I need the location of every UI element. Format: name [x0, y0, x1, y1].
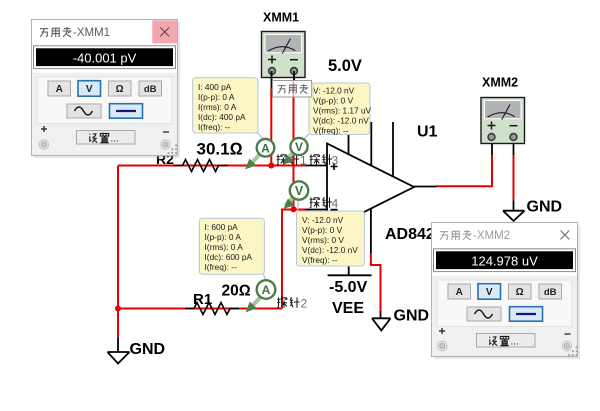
svg-text:dB: dB: [144, 84, 157, 95]
XMM2 button ohm: [509, 284, 532, 299]
XMM1 settings button: [77, 131, 136, 145]
resistor R1: [185, 303, 239, 315]
probe 4 label: [310, 197, 332, 207]
XMM1 instrument icon: [262, 32, 306, 78]
svg-text:V: -12.0 nV: V: -12.0 nV: [313, 85, 355, 95]
ground GND1 bottom left: [108, 338, 130, 364]
XMM2 settings button: [477, 334, 536, 348]
svg-text:I(p-p): 0 A: I(p-p): 0 A: [198, 92, 235, 102]
svg-text:-XMM1: -XMM1: [73, 27, 110, 39]
XMM2 button dB: [539, 284, 562, 299]
op-amp top pin VCC: [348, 130, 350, 155]
probe 3 voltage probe V: [284, 138, 308, 164]
svg-text:V(freq): --: V(freq): --: [302, 255, 338, 265]
XMM2 instrument icon: [481, 98, 525, 144]
probe callout box1 I400pA: [193, 78, 263, 139]
XMM1 button A: [48, 81, 71, 96]
svg-text:V: V: [295, 140, 303, 154]
svg-text:4: 4: [332, 197, 339, 211]
op-amp minus input marker: [331, 209, 338, 211]
XMM1 button dB: [139, 81, 162, 96]
XMM1 body: [32, 73, 177, 155]
XMM1 title: [40, 27, 72, 37]
tooltip wanyongbiao: [273, 81, 315, 100]
XMM2 button A: [448, 284, 471, 299]
op-amp U1 triangle: [327, 144, 414, 231]
svg-text:124.978 uV: 124.978 uV: [471, 254, 538, 269]
multimeter dialog XMM2: [432, 223, 581, 360]
XMM1 button V selected: [78, 81, 101, 97]
svg-text:XMM1: XMM1: [263, 11, 299, 25]
svg-text:GND: GND: [527, 199, 563, 216]
wire left rail vertical: [117, 166, 119, 339]
XMM2 button sine: [467, 307, 501, 321]
probe 2 label: [277, 297, 299, 307]
svg-text:V: V: [295, 184, 304, 198]
svg-text:V: -12.0 nV: V: -12.0 nV: [302, 215, 344, 225]
svg-text:I(freq): --: I(freq): --: [198, 122, 231, 132]
probe callout box2 V upper: [302, 83, 372, 141]
XMM2 button V selected: [478, 284, 501, 300]
svg-text:Ω: Ω: [516, 287, 524, 298]
op-amp U1 input pin stubs: [306, 166, 328, 210]
svg-text:I: 600 pA: I: 600 pA: [205, 222, 239, 232]
svg-text:V(rms): 0 V: V(rms): 0 V: [302, 235, 344, 245]
svg-text:AD842: AD842: [385, 226, 435, 243]
XMM1 button dc-line selected: [110, 104, 143, 119]
XMM2 minus terminal: [565, 333, 571, 335]
svg-text:A: A: [456, 287, 463, 298]
svg-text:-40.001 pV: -40.001 pV: [73, 51, 137, 66]
svg-text:V(freq): --: V(freq): --: [313, 125, 349, 135]
wire output to XMM2: [437, 155, 493, 186]
svg-text:V(p-p): 0 V: V(p-p): 0 V: [302, 225, 343, 235]
op-amp plus input marker: [331, 163, 338, 170]
svg-text:GND: GND: [130, 341, 166, 358]
XMM2 resize grip: [568, 346, 578, 356]
svg-text:A: A: [56, 84, 63, 95]
probe 1 current probe A: [246, 139, 274, 169]
svg-text:2: 2: [301, 297, 308, 311]
svg-text:I(rms): 0 A: I(rms): 0 A: [198, 102, 237, 112]
svg-text:...: ...: [111, 133, 119, 144]
svg-text:...: ...: [511, 336, 519, 347]
op-amp top pin stub 2: [370, 122, 372, 166]
svg-text:-5.0V: -5.0V: [329, 279, 368, 296]
ground GND2 below XMM2: [503, 200, 525, 221]
probe 4 voltage probe V: [285, 181, 309, 208]
wire R1 to minus-input riser: [282, 210, 294, 309]
svg-text:A: A: [262, 283, 271, 297]
XMM1 button sine: [67, 104, 101, 118]
svg-text:I(freq): --: I(freq): --: [205, 262, 238, 272]
probe 3 label: [310, 154, 332, 164]
multimeter dialog XMM1: [32, 20, 181, 159]
wire opamp pin to GND3: [371, 253, 381, 311]
ground GND3 below op-amp: [372, 311, 391, 331]
svg-text:I(dc): 600 pA: I(dc): 600 pA: [205, 252, 253, 262]
junction node B: [291, 206, 297, 212]
probe 1 label: [277, 154, 299, 164]
svg-text:5.0V: 5.0V: [328, 57, 362, 75]
svg-text:I(dc): 400 pA: I(dc): 400 pA: [198, 112, 246, 122]
svg-text:3: 3: [332, 154, 339, 168]
svg-text:V(rms): 1.17 uV: V(rms): 1.17 uV: [313, 105, 372, 115]
svg-text:V(dc): -12.0 nV: V(dc): -12.0 nV: [302, 245, 358, 255]
svg-text:I(p-p): 0 A: I(p-p): 0 A: [205, 232, 242, 242]
op-amp output black stub: [414, 186, 437, 188]
svg-text:dB: dB: [544, 287, 557, 298]
XMM1 plus terminal: [41, 126, 47, 132]
svg-text:XMM2: XMM2: [482, 76, 518, 90]
XMM1 display: [34, 46, 176, 69]
svg-text:Ω: Ω: [116, 84, 124, 95]
XMM2 minus wire: [513, 155, 515, 200]
wire XMM1 plus lead: [270, 88, 272, 166]
probe callout box3 V lower: [297, 200, 365, 266]
XMM1 close button: [152, 20, 177, 43]
svg-text:GND: GND: [394, 308, 430, 325]
VEE rail symbol: [328, 274, 372, 276]
XMM1 icon pins: [272, 71, 295, 88]
svg-text:V(p-p): 0 V: V(p-p): 0 V: [313, 95, 354, 105]
XMM2 body: [432, 276, 577, 356]
XMM2 display: [434, 249, 576, 272]
svg-text:VEE: VEE: [332, 300, 364, 317]
junction node A: [268, 163, 274, 169]
svg-text:30.1Ω: 30.1Ω: [197, 140, 243, 159]
svg-text:A: A: [261, 141, 270, 155]
svg-text:V(dc): -12.0 nV: V(dc): -12.0 nV: [313, 115, 369, 125]
svg-text:U1: U1: [417, 124, 438, 141]
XMM1 resize grip: [167, 144, 177, 154]
svg-text:20Ω: 20Ω: [222, 283, 251, 300]
XMM1 button ohm: [109, 81, 132, 96]
wire net A horizontal (+input): [118, 165, 306, 167]
wire XMM1 minus lead: [293, 80, 295, 210]
svg-text:I: 400 pA: I: 400 pA: [198, 82, 232, 92]
XMM2 plus terminal: [439, 328, 445, 334]
svg-text:I(rms): 0 A: I(rms): 0 A: [205, 242, 244, 252]
svg-text:V: V: [86, 84, 93, 95]
probe callout box4 I600pA: [199, 218, 266, 283]
svg-text:-XMM2: -XMM2: [473, 230, 510, 242]
op-amp VEE pin: [348, 220, 350, 276]
XMM2 button dc-line selected: [510, 307, 543, 322]
XMM2 pin stubs black: [492, 143, 514, 155]
op-amp bottom pin to GND: [370, 209, 372, 254]
svg-text:R1: R1: [193, 291, 212, 308]
junction left rail R1: [115, 306, 121, 312]
resistor R2: [174, 160, 228, 172]
XMM1 minus terminal: [163, 131, 169, 133]
svg-text:V: V: [486, 287, 493, 298]
wire net B minus input: [294, 209, 306, 211]
probe 2 current probe A: [247, 280, 276, 311]
XMM2 title: [440, 230, 472, 240]
XMM2 close button: [561, 231, 570, 240]
wire R1 net horizontal: [118, 308, 282, 310]
op-amp top pin stub 3: [392, 122, 394, 177]
